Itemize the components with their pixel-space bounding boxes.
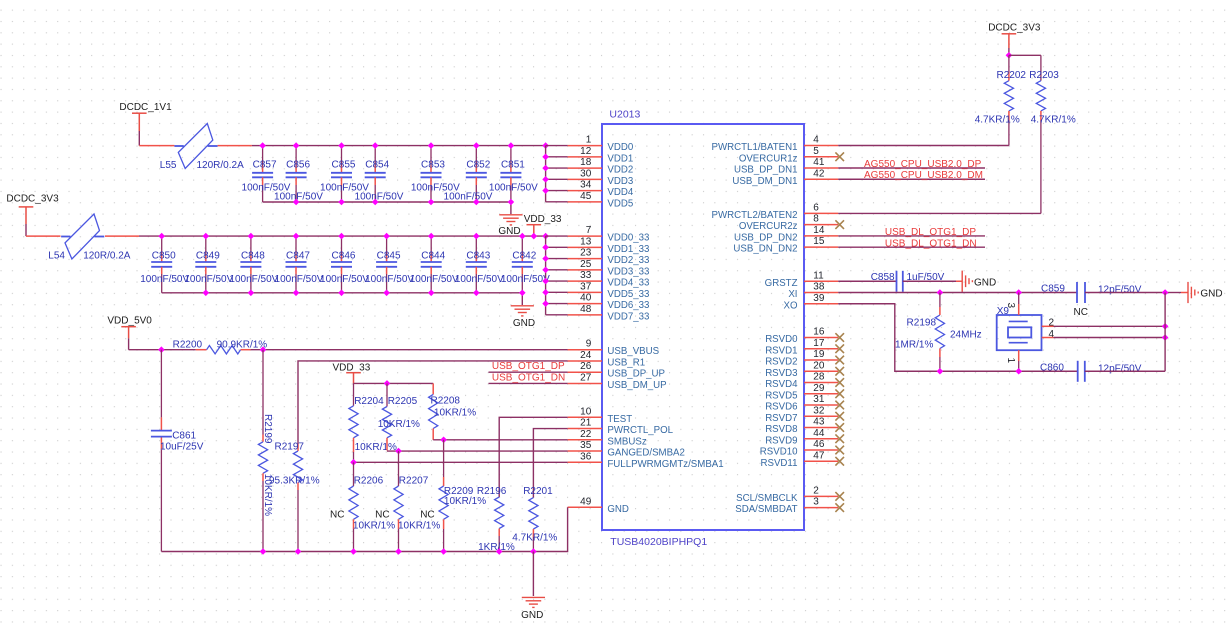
wire pin 39 XO net bbox=[838, 304, 1077, 372]
power symbol VDD_33 (near IC) bbox=[524, 214, 562, 236]
junction VDD_33 branch pin 37 bbox=[542, 289, 549, 296]
pin 6 (PWRCTL2/BATEN2) bbox=[712, 202, 839, 221]
svg-text:PWRCTL1/BATEN1: PWRCTL1/BATEN1 bbox=[712, 142, 798, 153]
wire C860 to GND line bbox=[1085, 370, 1165, 372]
wire crystal pin 2 to GND line bbox=[1042, 325, 1165, 327]
pin 5 (OVERCUR1z) bbox=[739, 146, 844, 165]
svg-text:C857: C857 bbox=[253, 160, 277, 171]
svg-text:USB_DP_DN1: USB_DP_DN1 bbox=[734, 165, 798, 176]
capacitor C860 12pF/50V bbox=[1040, 361, 1085, 382]
svg-text:GRSTZ: GRSTZ bbox=[765, 278, 798, 289]
wire crystal pin 1 (bottom) bbox=[1018, 350, 1020, 371]
wire pin 11 GRSTZ to C858 bbox=[838, 280, 896, 282]
svg-text:23: 23 bbox=[580, 248, 592, 259]
junction GND rail / R2199 bbox=[260, 548, 267, 555]
wire pin 38 XI net bbox=[838, 292, 1077, 294]
pin 3 (SDA/SMBDAT) bbox=[735, 497, 844, 516]
svg-text:R2200: R2200 bbox=[173, 339, 203, 350]
junction GND rail / R2197 bbox=[295, 548, 302, 555]
svg-text:100nF/50V: 100nF/50V bbox=[320, 274, 369, 285]
wire L55 to C857 bbox=[218, 145, 263, 147]
wire bus to GND drop bbox=[510, 202, 512, 214]
capacitor C843 100nF/50V bbox=[466, 236, 491, 293]
capacitor C852 100nF/50V bbox=[466, 146, 491, 202]
svg-text:VDD4: VDD4 bbox=[607, 187, 633, 198]
junction C853 top bbox=[428, 142, 435, 149]
svg-text:2: 2 bbox=[813, 485, 819, 496]
wire row2 bottom bus bbox=[162, 292, 523, 294]
svg-text:4: 4 bbox=[813, 135, 819, 146]
svg-text:10KR/1%: 10KR/1% bbox=[353, 521, 395, 532]
svg-text:C845: C845 bbox=[377, 250, 401, 261]
svg-text:VDD2: VDD2 bbox=[607, 165, 633, 176]
svg-text:C842: C842 bbox=[512, 250, 536, 261]
pin 29 (RSVD5) bbox=[765, 383, 844, 402]
junction R2206 tap bbox=[350, 459, 357, 466]
svg-text:10KR/1%: 10KR/1% bbox=[378, 419, 420, 430]
junction C846 top bbox=[338, 233, 345, 240]
junction C856 top bbox=[293, 142, 300, 149]
junction C852 bottom bbox=[473, 199, 480, 206]
wire R2202 to pin 4 bbox=[838, 145, 1009, 147]
svg-text:100nF/50V: 100nF/50V bbox=[455, 274, 504, 285]
resistor R2209 10KR/1% bbox=[439, 440, 474, 552]
svg-text:USB_DL_OTG1_DP: USB_DL_OTG1_DP bbox=[885, 227, 976, 238]
wire pin 15 (USB_DN_DN2) bbox=[838, 246, 985, 248]
svg-text:24: 24 bbox=[580, 350, 592, 361]
wire C861 column bbox=[160, 350, 162, 552]
svg-text:30: 30 bbox=[580, 168, 592, 179]
pin 41 (USB_DP_DN1) bbox=[734, 157, 838, 176]
pin 40 (VDD6_33) bbox=[568, 293, 650, 312]
svg-text:XI: XI bbox=[788, 289, 797, 300]
capacitor C846 100nF/50V bbox=[331, 236, 356, 293]
junction R2202/R2203 feed bbox=[1006, 52, 1013, 59]
junction R2207 tap bbox=[395, 448, 402, 455]
svg-text:17: 17 bbox=[813, 338, 825, 349]
svg-text:10KR/1%: 10KR/1% bbox=[434, 408, 476, 419]
svg-text:C856: C856 bbox=[286, 160, 310, 171]
svg-text:VDD6_33: VDD6_33 bbox=[607, 300, 649, 311]
svg-text:SCL/SMBCLK: SCL/SMBCLK bbox=[736, 493, 798, 504]
svg-text:RSVD11: RSVD11 bbox=[761, 458, 798, 469]
svg-text:20: 20 bbox=[813, 360, 825, 371]
svg-text:GND: GND bbox=[513, 318, 535, 329]
svg-text:45: 45 bbox=[580, 191, 592, 202]
svg-text:R2202: R2202 bbox=[997, 70, 1027, 81]
svg-text:R2206: R2206 bbox=[354, 476, 384, 487]
junction GND rail / R2196 bbox=[496, 548, 503, 555]
svg-text:C855: C855 bbox=[332, 160, 356, 171]
junction XI / R2198 bbox=[937, 289, 944, 296]
junction VDD branch pin 30 bbox=[542, 176, 549, 183]
svg-text:R2208: R2208 bbox=[431, 396, 461, 407]
svg-text:FULLPWRMGMTz/SMBA1: FULLPWRMGMTz/SMBA1 bbox=[607, 459, 723, 470]
svg-text:15: 15 bbox=[813, 236, 825, 247]
wire USB_OTG1_DN to pin 27 bbox=[489, 382, 568, 384]
svg-text:12pF/50V: 12pF/50V bbox=[1098, 285, 1142, 296]
svg-text:GND: GND bbox=[521, 610, 543, 621]
svg-text:GND: GND bbox=[607, 504, 629, 515]
svg-text:C852: C852 bbox=[466, 160, 490, 171]
wire crystal pin 4 to GND line bbox=[1042, 337, 1165, 339]
resistor R2202 4.7KR/1% bbox=[997, 55, 1027, 145]
svg-text:VDD_33: VDD_33 bbox=[524, 214, 562, 225]
junction VDD_33 branch pin 13 bbox=[542, 244, 549, 251]
pin 46 (RSVD10) bbox=[760, 439, 844, 458]
svg-text:NC: NC bbox=[375, 510, 389, 521]
wire DCDC_3V3 to L54 bbox=[26, 235, 61, 237]
svg-text:GND: GND bbox=[1200, 289, 1222, 300]
svg-text:VDD0_33: VDD0_33 bbox=[607, 233, 649, 244]
junction C846 bottom bbox=[338, 290, 345, 297]
capacitor C854 100nF/50V bbox=[365, 146, 390, 202]
pin 28 (RSVD4) bbox=[765, 372, 844, 391]
svg-text:28: 28 bbox=[813, 372, 825, 383]
svg-text:C844: C844 bbox=[421, 250, 445, 261]
svg-text:RSVD10: RSVD10 bbox=[760, 447, 798, 458]
wire pin 41 (USB_DP_DN1) bbox=[838, 167, 985, 169]
svg-text:100nF/50V: 100nF/50V bbox=[275, 274, 324, 285]
resistor R2205 10KR/1% bbox=[382, 383, 417, 450]
svg-text:100nF/50V: 100nF/50V bbox=[501, 274, 550, 285]
wire VDD_33 top bus bbox=[162, 235, 546, 237]
pin 10 (TEST) bbox=[568, 406, 633, 425]
wire DCDC_3V3 stem to junction bbox=[1008, 48, 1010, 55]
svg-text:RSVD6: RSVD6 bbox=[765, 402, 797, 413]
svg-text:OVERCUR2z: OVERCUR2z bbox=[739, 221, 798, 232]
pin 8 (OVERCUR2z) bbox=[739, 214, 844, 233]
svg-text:DCDC_3V3: DCDC_3V3 bbox=[988, 23, 1041, 34]
svg-text:GND: GND bbox=[498, 226, 520, 237]
wire VDD_33 distribution vertical (VDD0_33-VDD7_33) bbox=[546, 236, 568, 315]
junction C856 bottom bbox=[293, 199, 300, 206]
pin 9 (USB_VBUS) bbox=[568, 339, 660, 358]
pin 39 (XO) bbox=[784, 293, 839, 312]
pin 25 (VDD3_33) bbox=[568, 259, 650, 278]
wire GANGED/SMBA2 net (pin 35 to R2205) bbox=[387, 450, 568, 452]
svg-text:USB_VBUS: USB_VBUS bbox=[607, 346, 659, 357]
svg-text:40: 40 bbox=[580, 293, 592, 304]
crystal X9 24MHz bbox=[997, 306, 1042, 350]
svg-text:L55: L55 bbox=[160, 160, 177, 171]
wire C858 to ground bbox=[903, 280, 962, 282]
ground symbol GND (row2 caps) bbox=[511, 306, 535, 329]
junction bus row2 / VDD_33 pin column bbox=[542, 233, 549, 240]
svg-text:R2197: R2197 bbox=[275, 442, 305, 453]
ground symbol GND (crystal) bbox=[1188, 282, 1223, 303]
junction C853 bottom bbox=[428, 199, 435, 206]
resistor R2203 4.7KR/1% bbox=[1029, 55, 1059, 213]
junction C847 top bbox=[293, 233, 300, 240]
svg-text:41: 41 bbox=[813, 157, 825, 168]
svg-text:C851: C851 bbox=[501, 160, 525, 171]
junction C842 top bbox=[519, 233, 526, 240]
capacitor C847 100nF/50V bbox=[286, 236, 311, 293]
svg-text:VDD3_33: VDD3_33 bbox=[607, 266, 649, 277]
svg-text:C858: C858 bbox=[871, 272, 895, 283]
svg-text:RSVD3: RSVD3 bbox=[765, 368, 797, 379]
junction C852 top bbox=[473, 142, 480, 149]
wire VDD 1V1 top bus bbox=[263, 145, 546, 147]
inductor L55 (ferrite bead 120R/0.2A) bbox=[174, 124, 217, 169]
wire pin 49 GND net rail bbox=[161, 507, 567, 551]
capacitor C842 100nF/50V bbox=[512, 236, 537, 293]
svg-text:USB_OTG1_DP: USB_OTG1_DP bbox=[492, 361, 565, 372]
svg-text:36: 36 bbox=[580, 451, 592, 462]
pin 38 (XI) bbox=[788, 282, 838, 301]
svg-text:7: 7 bbox=[586, 225, 592, 236]
junction C849 bottom bbox=[203, 290, 210, 297]
junction GND rail / R2207 bbox=[395, 548, 402, 555]
junction crystal pin 2 / GND line bbox=[1162, 323, 1169, 330]
svg-text:4.7KR/1%: 4.7KR/1% bbox=[975, 115, 1020, 126]
wire R2203 to pin 6 bbox=[838, 212, 1041, 214]
svg-text:26: 26 bbox=[580, 361, 592, 372]
svg-text:13: 13 bbox=[580, 236, 592, 247]
svg-text:100nF/50V: 100nF/50V bbox=[410, 274, 459, 285]
svg-text:31: 31 bbox=[813, 394, 825, 405]
svg-text:C859: C859 bbox=[1041, 283, 1065, 294]
capacitor C856 100nF/50V bbox=[286, 146, 311, 202]
pin 24 (USB_R1) bbox=[568, 350, 646, 369]
svg-text:43: 43 bbox=[813, 417, 825, 428]
pin 15 (USB_DN_DN2) bbox=[733, 236, 838, 255]
svg-text:100nF/50V: 100nF/50V bbox=[184, 274, 233, 285]
svg-text:RSVD5: RSVD5 bbox=[765, 390, 797, 401]
pin 4 (PWRCTL1/BATEN1) bbox=[712, 135, 839, 154]
pin 2 (SCL/SMBCLK) bbox=[736, 485, 844, 504]
pin 34 (VDD4) bbox=[568, 180, 634, 199]
svg-text:10KR/1%: 10KR/1% bbox=[398, 521, 440, 532]
svg-text:24MHz: 24MHz bbox=[950, 330, 982, 341]
svg-text:USB_DL_OTG1_DN: USB_DL_OTG1_DN bbox=[885, 238, 977, 249]
junction GND rail / R2201 bbox=[530, 548, 537, 555]
svg-text:U2013: U2013 bbox=[609, 109, 640, 121]
wire bus2 to GND drop bbox=[521, 293, 523, 305]
wire C859 to GND line bbox=[1085, 292, 1165, 294]
resistor R2197 95.3KR/1% bbox=[275, 442, 305, 552]
svg-text:VDD_5V0: VDD_5V0 bbox=[107, 315, 152, 326]
pin 32 (RSVD7) bbox=[765, 405, 844, 424]
wire pin 14 (USB_DP_DN2) bbox=[838, 235, 985, 237]
svg-text:C846: C846 bbox=[332, 250, 356, 261]
svg-text:TUSB4020BIPHPQ1: TUSB4020BIPHPQ1 bbox=[610, 536, 707, 548]
svg-text:C853: C853 bbox=[421, 160, 445, 171]
junction VDD branch pin 34 bbox=[542, 187, 549, 194]
power symbol DCDC_1V1 bbox=[119, 102, 172, 131]
junction VDD_33 branch pin 33 bbox=[542, 278, 549, 285]
svg-text:VDD5: VDD5 bbox=[607, 198, 633, 209]
svg-text:USB_DP_UP: USB_DP_UP bbox=[607, 369, 665, 380]
junction XI / crystal pin 3 bbox=[1015, 289, 1022, 296]
junction crystal pin 4 / GND line bbox=[1162, 334, 1169, 341]
svg-text:R2198: R2198 bbox=[907, 318, 937, 329]
svg-text:14: 14 bbox=[813, 225, 825, 236]
pin 36 (FULLPWRMGMTz/SMBA1) bbox=[568, 451, 724, 470]
svg-text:21: 21 bbox=[580, 418, 592, 429]
svg-text:DCDC_3V3: DCDC_3V3 bbox=[6, 194, 59, 205]
svg-text:RSVD2: RSVD2 bbox=[765, 357, 797, 368]
svg-text:29: 29 bbox=[813, 383, 825, 394]
junction C848 top bbox=[248, 233, 255, 240]
svg-text:AG550_CPU_USB2.0_DP: AG550_CPU_USB2.0_DP bbox=[864, 159, 982, 170]
svg-text:47: 47 bbox=[813, 450, 825, 461]
svg-text:10: 10 bbox=[580, 406, 592, 417]
pin 31 (RSVD6) bbox=[765, 394, 844, 413]
svg-text:VDD0: VDD0 bbox=[607, 142, 633, 153]
svg-text:VDD7_33: VDD7_33 bbox=[607, 311, 649, 322]
svg-text:R2201: R2201 bbox=[523, 486, 553, 497]
svg-text:USB_DN_DN2: USB_DN_DN2 bbox=[733, 244, 797, 255]
pin 18 (VDD2) bbox=[568, 157, 634, 176]
pin 44 (RSVD9) bbox=[765, 428, 844, 447]
junction VDD_33 stem on bus bbox=[531, 233, 538, 240]
svg-text:USB_DM_DN1: USB_DM_DN1 bbox=[732, 176, 797, 187]
svg-text:AG550_CPU_USB2.0_DM: AG550_CPU_USB2.0_DM bbox=[864, 170, 983, 181]
svg-text:4.7KR/1%: 4.7KR/1% bbox=[1031, 115, 1076, 126]
svg-text:38: 38 bbox=[813, 282, 825, 293]
junction VDD_33 branch pin 23 bbox=[542, 255, 549, 262]
pin 43 (RSVD8) bbox=[765, 417, 844, 436]
junction C844 bottom bbox=[428, 290, 435, 297]
junction C854 top bbox=[372, 142, 379, 149]
pin 27 (USB_DM_UP) bbox=[568, 372, 667, 391]
svg-text:16: 16 bbox=[813, 327, 825, 338]
junction VDD branch pin 12 bbox=[542, 154, 549, 161]
ground symbol GND (C858) bbox=[962, 271, 996, 292]
power symbol DCDC_3V3 (left) bbox=[6, 194, 59, 225]
svg-text:11: 11 bbox=[813, 270, 824, 281]
resistor R2208 10KR/1% bbox=[429, 383, 461, 440]
svg-text:37: 37 bbox=[580, 281, 592, 292]
svg-text:C848: C848 bbox=[241, 250, 265, 261]
wire L54 to C850 bbox=[105, 235, 162, 237]
svg-text:100nF/50V: 100nF/50V bbox=[274, 191, 323, 202]
svg-text:19: 19 bbox=[813, 349, 825, 360]
svg-text:48: 48 bbox=[580, 304, 592, 315]
pin 11 (GRSTZ) bbox=[765, 270, 839, 289]
junction XI wire / GND line bbox=[1162, 289, 1169, 296]
junction bus row1 / VDD pin column bbox=[542, 142, 549, 149]
pin 23 (VDD2_33) bbox=[568, 248, 650, 267]
capacitor C851 100nF/50V bbox=[500, 146, 525, 202]
junction C848 bottom bbox=[248, 290, 255, 297]
svg-text:NC: NC bbox=[1074, 307, 1088, 318]
pin 19 (RSVD2) bbox=[765, 349, 844, 368]
svg-text:C854: C854 bbox=[365, 160, 389, 171]
capacitor C844 100nF/50V bbox=[421, 236, 446, 293]
svg-text:100nF/50V: 100nF/50V bbox=[365, 274, 414, 285]
pin 1 (VDD0) bbox=[568, 135, 634, 154]
wire VDD distribution vertical (VDD0-VDD5) bbox=[546, 146, 568, 202]
svg-text:39: 39 bbox=[813, 293, 825, 304]
wire FULLPWRMGMTz/SMBA1 net (pin 36 to R2204) bbox=[354, 461, 568, 463]
svg-text:RSVD4: RSVD4 bbox=[765, 379, 798, 390]
svg-text:RSVD8: RSVD8 bbox=[765, 424, 797, 435]
svg-text:34: 34 bbox=[580, 180, 592, 191]
power symbol VDD_33 (pull-ups) bbox=[333, 363, 371, 384]
svg-text:6: 6 bbox=[813, 202, 819, 213]
svg-text:18: 18 bbox=[580, 157, 592, 168]
svg-text:100nF/50V: 100nF/50V bbox=[140, 274, 189, 285]
junction C855 bottom bbox=[338, 199, 345, 206]
svg-text:SDA/SMBDAT: SDA/SMBDAT bbox=[735, 504, 797, 515]
pin 22 (SMBUSz) bbox=[568, 429, 647, 448]
svg-text:R2203: R2203 bbox=[1029, 70, 1059, 81]
junction C850 top bbox=[158, 233, 165, 240]
svg-text:VDD2_33: VDD2_33 bbox=[607, 255, 649, 266]
svg-text:4.7KR/1%: 4.7KR/1% bbox=[512, 532, 557, 543]
pin 7 (VDD0_33) bbox=[568, 225, 650, 244]
svg-text:XO: XO bbox=[784, 300, 798, 311]
svg-text:RSVD1: RSVD1 bbox=[765, 345, 797, 356]
resistor R2204 10KR/1% bbox=[349, 383, 384, 461]
junction C847 bottom bbox=[293, 290, 300, 297]
wire SMBUSz net (pin 22 to R2208) bbox=[433, 439, 567, 441]
svg-text:10uF/25V: 10uF/25V bbox=[160, 442, 204, 453]
svg-text:NC: NC bbox=[330, 510, 344, 521]
junction C857 top bbox=[259, 142, 266, 149]
svg-text:C849: C849 bbox=[196, 250, 220, 261]
svg-text:SMBUSz: SMBUSz bbox=[607, 436, 646, 447]
capacitor C858 1uF/50V bbox=[871, 271, 903, 292]
pin 47 (RSVD11) bbox=[761, 450, 844, 469]
svg-text:DCDC_1V1: DCDC_1V1 bbox=[119, 102, 172, 113]
junction C851 top bbox=[508, 142, 515, 149]
svg-text:100nF/50V: 100nF/50V bbox=[229, 274, 278, 285]
ground symbol GND (row1 caps) bbox=[498, 215, 522, 237]
svg-text:USB_OTG1_DN: USB_OTG1_DN bbox=[492, 372, 565, 383]
resistor R2196 1KR/1% bbox=[477, 486, 507, 552]
svg-text:R2199: R2199 bbox=[262, 414, 273, 444]
capacitor C845 100nF/50V bbox=[376, 236, 401, 293]
junction C843 bottom bbox=[473, 290, 480, 297]
junction VDD branch pin 18 bbox=[542, 165, 549, 172]
svg-text:22: 22 bbox=[580, 429, 592, 440]
svg-text:PWRCTL_POL: PWRCTL_POL bbox=[607, 425, 673, 436]
svg-text:32: 32 bbox=[813, 405, 825, 416]
svg-text:OVERCUR1z: OVERCUR1z bbox=[739, 153, 798, 164]
svg-text:USB_R1: USB_R1 bbox=[607, 357, 645, 368]
junction C843 top bbox=[473, 233, 480, 240]
wire GND rail to ground symbol bbox=[532, 552, 534, 597]
pin 20 (RSVD3) bbox=[765, 360, 844, 379]
junction C849 top bbox=[203, 233, 210, 240]
pin 45 (VDD5) bbox=[568, 191, 634, 210]
capacitor C850 100nF/50V bbox=[151, 236, 176, 293]
junction VDD_33 branch pin 25 bbox=[542, 267, 549, 274]
svg-text:27: 27 bbox=[580, 372, 592, 383]
junction C861 tap bbox=[158, 346, 165, 353]
svg-text:GND: GND bbox=[974, 277, 996, 288]
wire PWRCTL_POL net (pin 21 to R2201) bbox=[533, 429, 567, 498]
svg-text:5: 5 bbox=[813, 146, 819, 157]
wire VDD_5V0 to R2200 bbox=[129, 349, 207, 351]
svg-text:95.3KR/1%: 95.3KR/1% bbox=[269, 476, 320, 487]
svg-text:USB_DP_DN2: USB_DP_DN2 bbox=[734, 232, 798, 243]
capacitor C859 12pF/50V bbox=[1041, 282, 1085, 303]
junction C842 bottom bbox=[519, 290, 526, 297]
svg-text:49: 49 bbox=[580, 496, 592, 507]
power symbol VDD_5V0 bbox=[107, 315, 152, 338]
wire TEST net (pin 10 to R2196) bbox=[499, 417, 567, 497]
resistor R2201 4.7KR/1% bbox=[523, 486, 553, 552]
svg-text:100nF/50V: 100nF/50V bbox=[489, 183, 538, 194]
svg-text:VDD1: VDD1 bbox=[607, 153, 633, 164]
power symbol DCDC_3V3 (right) bbox=[988, 23, 1041, 49]
svg-text:C861: C861 bbox=[172, 431, 196, 442]
